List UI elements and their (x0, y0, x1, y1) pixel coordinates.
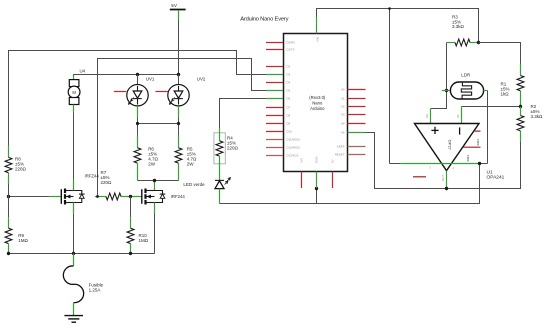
svg-text:GND: GND (315, 157, 319, 163)
svg-text:Arduino: Arduino (310, 106, 325, 111)
svg-text:D10: D10 (287, 130, 293, 134)
pin D8 (266, 114, 291, 118)
pin GND bottom (315, 157, 319, 188)
svg-text:IRF244: IRF244 (171, 194, 186, 199)
svg-text:220Ω: 220Ω (101, 180, 113, 185)
wire gate left node (9, 196, 61, 198)
svg-text:5V: 5V (331, 159, 335, 163)
LED UV2 (168, 75, 206, 118)
Arduino Nano Every U2 (240, 16, 347, 171)
pin 5V bottom (331, 159, 335, 188)
pin D10 (266, 130, 292, 134)
wire Q1 source down (73, 203, 75, 254)
svg-text:D4: D4 (287, 81, 291, 85)
svg-text:D7: D7 (287, 106, 291, 110)
wire VIN top net (317, 9, 479, 164)
svg-text:A0: A0 (341, 88, 345, 92)
svg-text:IRFZ44: IRFZ44 (85, 173, 100, 178)
wire LDR right down to feedback node (487, 91, 489, 164)
wire R5/R6 bottoms to Q2 drain (138, 181, 179, 191)
resistor R3 (447, 14, 479, 46)
junction 5V rail / UV2 (177, 73, 180, 76)
junction top wire bend (388, 7, 391, 10)
svg-text:IN+: IN+ (425, 113, 429, 118)
pin D0/RX (266, 41, 295, 45)
svg-text:OP27: OP27 (448, 140, 453, 151)
pin RESET (335, 153, 366, 157)
junction LDR left node (445, 89, 448, 92)
resistor R9 (5, 197, 28, 254)
svg-text:3.3kΩ: 3.3kΩ (531, 114, 544, 119)
svg-text:2W: 2W (148, 161, 156, 166)
pin AREF (337, 145, 366, 149)
pin D11/MOSI (266, 138, 300, 142)
LED verde D1 (183, 178, 230, 204)
pin A2 (341, 105, 366, 109)
junction drain node (153, 179, 156, 182)
wire ground rail (9, 253, 155, 255)
pin A5 (341, 131, 366, 135)
resistor R1 (501, 64, 524, 107)
pin A4 (341, 122, 366, 126)
transistor Q1 IRFZ44 (left MOSFET) (61, 173, 99, 204)
svg-text:D12/MISO: D12/MISO (287, 146, 301, 150)
wire Q2 source down (154, 203, 156, 254)
svg-text:RESET: RESET (335, 153, 345, 157)
svg-text:OPA241: OPA241 (487, 175, 505, 181)
resistor R2 (517, 104, 543, 142)
svg-text:D3: D3 (287, 73, 291, 77)
svg-text:U4: U4 (80, 69, 86, 74)
resistor R10 (127, 197, 149, 254)
svg-text:3V3: 3V3 (300, 157, 304, 163)
pin D9 (266, 122, 291, 126)
svg-text:D0/RX: D0/RX (287, 41, 296, 45)
svg-text:D5: D5 (287, 89, 291, 93)
svg-text:A2: A2 (341, 105, 345, 109)
junction 5V rail / UV1 (136, 73, 139, 76)
svg-text:D1/TX: D1/TX (287, 48, 295, 52)
wire 5V rail (74, 75, 179, 80)
svg-text:UV2: UV2 (197, 77, 206, 82)
pin D4 (266, 81, 291, 85)
svg-text:VIN: VIN (316, 37, 320, 42)
op-amp U1 title label (487, 169, 505, 180)
svg-text:D11/MOSI: D11/MOSI (287, 138, 300, 142)
svg-text:IN-: IN- (456, 114, 460, 118)
wire D5 net: Arduino D5 to R7 left node (98, 59, 267, 197)
pin D6 (266, 97, 291, 101)
wire D6 net: Arduino D6 to R4 top (220, 99, 267, 129)
junction R8/R9/gate (7, 195, 10, 198)
svg-text:1MΩ: 1MΩ (139, 238, 149, 243)
svg-text:2W: 2W (187, 161, 195, 166)
wire feedback (green) (390, 163, 488, 165)
svg-text:D9: D9 (287, 122, 291, 126)
pin A1 (341, 97, 366, 101)
pin D2 (266, 65, 291, 69)
svg-text:TRIM: TRIM (476, 139, 480, 145)
svg-text:D6: D6 (287, 97, 291, 101)
pin 3V3 bottom (300, 157, 304, 188)
svg-text:D13/SCK: D13/SCK (287, 154, 299, 158)
svg-text:Nano: Nano (312, 101, 323, 106)
wire Q1 drain up (73, 179, 75, 191)
svg-text:AREF: AREF (337, 145, 345, 149)
wire D3 net: Arduino D3 to R8 top (9, 51, 267, 146)
svg-text:LDR: LDR (461, 73, 471, 78)
svg-text:1.25A: 1.25A (89, 287, 101, 292)
pin D1/TX (266, 48, 295, 52)
pin D3 (266, 73, 291, 77)
pin UV2 unconnected (156, 91, 168, 93)
wire IN- to divider node (462, 106, 521, 108)
wire GND net (LED cathode / Arduino GND / right column) (220, 164, 480, 204)
svg-text:5V: 5V (171, 3, 178, 8)
svg-text:1MΩ: 1MΩ (18, 238, 28, 243)
svg-text:UV1: UV1 (146, 77, 155, 82)
junction UV1 bottom (136, 122, 139, 125)
junction GND wire (315, 187, 318, 190)
pin VIN top (316, 17, 320, 42)
LED UV1 (127, 75, 155, 118)
wire UV1-UV2 bottoms (138, 118, 179, 136)
wire A5 to op-amp out (366, 133, 521, 189)
ground (64, 316, 83, 323)
wire R3 left to LDR / IN+ (431, 43, 447, 109)
svg-text:A3: A3 (341, 113, 345, 117)
junction R3 right node (477, 41, 480, 44)
svg-text:A5: A5 (341, 131, 345, 135)
LDR (442, 73, 488, 99)
pin D12/MISO (266, 146, 301, 150)
svg-text:LED verde: LED verde (183, 182, 205, 187)
junction rail Q1 source / fuse (72, 252, 75, 255)
resistor R4 (boxed) (214, 128, 239, 180)
svg-text:M: M (72, 90, 76, 95)
pin UV1 unconnected (114, 91, 126, 93)
svg-text:D2: D2 (287, 65, 291, 69)
junction R1/R2/IN- node (519, 105, 522, 108)
resistor R7 (95, 170, 142, 200)
svg-text:A1: A1 (341, 97, 345, 101)
wire motor to Q1 drain (73, 113, 75, 180)
resistor R8 (5, 146, 26, 197)
svg-text:U1: U1 (487, 169, 493, 175)
svg-text:TRIM: TRIM (466, 155, 470, 161)
5V power symbol (170, 3, 186, 75)
pin D7 (266, 106, 291, 110)
svg-text:220Ω: 220Ω (15, 167, 27, 172)
junction R7 right / gate / R10 (129, 195, 132, 198)
svg-text:1kΩ: 1kΩ (501, 91, 510, 96)
pin A0 (341, 88, 366, 92)
op-amp U1 OPA241 (413, 107, 481, 189)
pin D13/SCK (266, 154, 299, 158)
svg-text:220Ω: 220Ω (227, 145, 239, 150)
junction op-amp out node (445, 187, 448, 190)
junction rail R10 (129, 252, 132, 255)
fuse F1 Fusible 1.25A (63, 254, 103, 316)
resistor R5 (175, 136, 197, 181)
junction R7 left / D5 wire (96, 195, 99, 198)
svg-text:(Rev3.0): (Rev3.0) (309, 95, 326, 100)
svg-text:3.3kΩ: 3.3kΩ (452, 24, 465, 29)
motor U4 (68, 69, 85, 113)
junction rail R9 (7, 252, 10, 255)
pin D5 (266, 89, 291, 93)
svg-text:OUT: OUT (441, 175, 445, 181)
junction UV2 bottom (177, 122, 180, 125)
svg-text:Arduino Nano Every: Arduino Nano Every (240, 16, 288, 22)
resistor R6 (134, 136, 158, 181)
transistor Q2 IRF244 (right MOSFET) (142, 189, 186, 205)
wire R3 node to R1 (479, 43, 521, 64)
junction feedback node (478, 162, 481, 165)
svg-text:D8: D8 (287, 114, 291, 118)
svg-text:A4: A4 (341, 122, 345, 126)
pin A3 (341, 113, 366, 117)
